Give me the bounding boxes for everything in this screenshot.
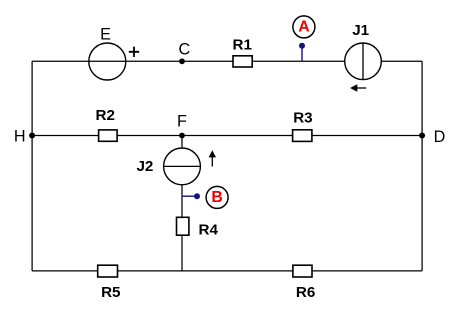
svg-text:H: H [14,128,26,146]
svg-text:J2: J2 [136,158,153,175]
svg-text:A: A [298,18,309,35]
svg-text:R2: R2 [95,107,114,124]
svg-text:R5: R5 [101,284,121,301]
svg-text:C: C [179,41,191,59]
svg-text:E: E [100,26,111,44]
svg-text:D: D [434,128,446,146]
svg-text:R3: R3 [293,110,312,127]
svg-text:F: F [177,113,187,131]
svg-text:R6: R6 [296,284,315,301]
svg-text:J1: J1 [352,22,369,39]
svg-text:R1: R1 [232,36,252,53]
svg-text:R4: R4 [198,221,218,238]
svg-text:B: B [211,189,222,206]
